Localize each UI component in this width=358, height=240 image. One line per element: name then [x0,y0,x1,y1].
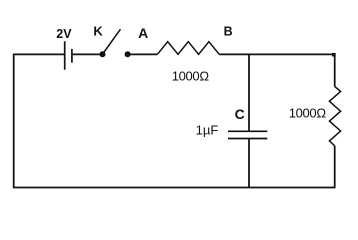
svg-text:A: A [138,25,148,41]
wire: node A to resistor R1 [130,53,157,55]
battery 2V short plate [71,49,73,63]
wire: resistor R1 to top-right corner [219,53,335,55]
resistor R1 zigzag [157,42,219,55]
wire: right branch top stub [334,54,336,86]
switch K pivot dot [100,51,106,57]
svg-text:2V: 2V [56,27,72,41]
svg-text:1000Ω: 1000Ω [172,69,210,84]
wire: top-left segment [14,53,64,55]
wire: capacitor bottom stub [248,139,250,188]
node A dot [125,51,131,57]
svg-text:B: B [224,25,233,39]
junction dot top-right corner [332,53,336,57]
switch K arm [103,29,121,53]
wire: left vertical [13,54,15,188]
wire: right branch bottom stub [334,146,336,188]
svg-text:C: C [235,106,245,122]
wire: capacitor top stub [248,54,250,131]
svg-text:K: K [93,23,103,38]
capacitor C bottom plate [228,138,267,140]
capacitor C top plate [228,130,267,132]
resistor R2 zigzag [329,87,340,146]
wire: bottom horizontal [13,187,336,189]
svg-text:1µF: 1µF [196,123,219,138]
battery 2V long plate [64,41,66,69]
wire: battery to switch [73,53,100,55]
svg-text:1000Ω: 1000Ω [289,106,327,121]
